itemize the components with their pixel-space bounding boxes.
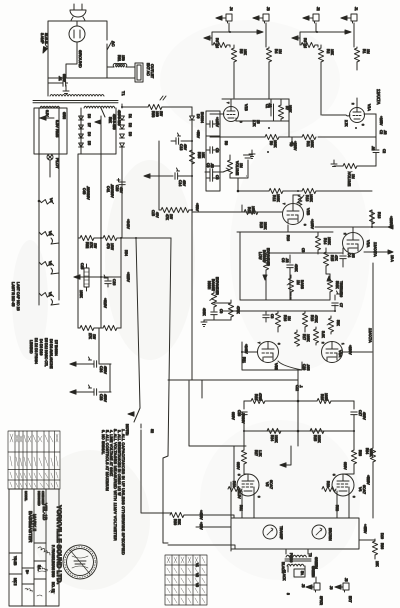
svg-text:R21: R21 bbox=[242, 357, 246, 363]
resistor R51 150 ohm coil bbox=[113, 63, 135, 67]
svg-text:HIGH: HIGH bbox=[207, 281, 211, 290]
pilot lamp bbox=[47, 154, 53, 166]
ext jack J6 bbox=[335, 583, 349, 592]
svg-text:12AX7A: 12AX7A bbox=[373, 242, 378, 257]
resistor R16 1M bbox=[275, 311, 280, 332]
svg-text:V3A: V3A bbox=[338, 350, 342, 358]
signature scribble bbox=[38, 547, 50, 555]
svg-text:R36: R36 bbox=[380, 543, 384, 549]
capacitor C22 .01 bbox=[61, 80, 69, 94]
resistor R18 470K bbox=[302, 311, 307, 332]
presence pot 50K bbox=[327, 316, 334, 334]
svg-text:6.3V RMS: 6.3V RMS bbox=[55, 120, 59, 138]
svg-text:B+: B+ bbox=[25, 570, 29, 574]
svg-text:3: 3 bbox=[361, 124, 365, 126]
svg-text:2: 2 bbox=[351, 103, 355, 105]
svg-text:J1: J1 bbox=[354, 7, 358, 11]
svg-text:C24: C24 bbox=[99, 366, 103, 372]
svg-text:MODEL: MODEL bbox=[24, 491, 28, 501]
cap C8 bbox=[263, 311, 269, 322]
extra scattered value labels bbox=[45, 110, 387, 595]
cap C7 + C10 bbox=[332, 291, 340, 311]
wires around V3 bbox=[242, 342, 372, 370]
svg-text:V2: V2 bbox=[48, 261, 52, 265]
svg-text:GROUND: GROUND bbox=[78, 50, 83, 68]
svg-text:V1: V1 bbox=[48, 292, 52, 296]
svg-text:V3: V3 bbox=[48, 231, 52, 235]
svg-text:C3: C3 bbox=[206, 163, 210, 167]
svg-text:10K: 10K bbox=[201, 152, 205, 159]
cap C2 on x376 bbox=[373, 137, 379, 166]
diode D6 bbox=[79, 125, 84, 129]
svg-text:S2: S2 bbox=[150, 429, 154, 433]
svg-text:C41: C41 bbox=[106, 186, 110, 192]
resistor R52 row1 bbox=[80, 235, 94, 240]
cap C13 bbox=[171, 133, 192, 144]
power box outline bbox=[48, 21, 107, 96]
svg-text:27K: 27K bbox=[88, 333, 92, 340]
svg-text:6.3V: 6.3V bbox=[45, 110, 49, 117]
tube V3A bbox=[322, 342, 343, 363]
svg-text:J5: J5 bbox=[301, 584, 305, 588]
resistor R3 1M bbox=[301, 42, 315, 47]
wire to ground cap bbox=[48, 50, 77, 83]
svg-text:SPKR: SPKR bbox=[319, 596, 323, 606]
svg-text:+165V: +165V bbox=[379, 116, 383, 126]
cap C14 + ground arrow bbox=[144, 168, 192, 179]
svg-text:J5: J5 bbox=[344, 578, 348, 582]
wire bus y238 to rails bbox=[121, 237, 171, 239]
heater bus wires bbox=[39, 108, 59, 305]
resistor R6 1M bbox=[213, 42, 227, 47]
svg-text:D5: D5 bbox=[87, 141, 91, 145]
volume pot ch2 bbox=[205, 155, 253, 178]
svg-text:400K: 400K bbox=[202, 308, 206, 317]
screen resistors bbox=[228, 486, 242, 491]
svg-text:R13: R13 bbox=[377, 212, 381, 218]
tube V1A bbox=[322, 98, 376, 123]
svg-text:C17: C17 bbox=[358, 410, 362, 416]
svg-text:.02/400V: .02/400V bbox=[110, 184, 114, 198]
svg-text:J4: J4 bbox=[229, 7, 233, 11]
resistor row2 a bbox=[80, 325, 94, 330]
title block signature scribbles bbox=[12, 559, 54, 596]
svg-text:D6: D6 bbox=[87, 132, 91, 136]
AC plug P1 bbox=[70, 4, 86, 21]
svg-text:RANGE: RANGE bbox=[211, 279, 215, 292]
svg-text:V1A: V1A bbox=[367, 104, 371, 111]
resistor R7 100K bbox=[278, 99, 283, 121]
svg-text:1W: 1W bbox=[92, 334, 96, 340]
cap C4 bbox=[340, 248, 346, 267]
svg-text:+525V: +525V bbox=[366, 475, 370, 485]
svg-text:2W: 2W bbox=[159, 111, 163, 117]
svg-text:C13: C13 bbox=[179, 144, 183, 150]
resistor R55 bbox=[189, 150, 194, 164]
cap C5 bbox=[287, 255, 293, 274]
svg-text:+280V: +280V bbox=[389, 216, 393, 227]
svg-text:OUTLET: OUTLET bbox=[150, 64, 154, 79]
rectifier loop box bbox=[81, 108, 116, 154]
svg-text:470K: 470K bbox=[258, 393, 262, 402]
svg-text:R52: R52 bbox=[85, 242, 89, 248]
svg-text:V3: V3 bbox=[195, 583, 199, 587]
resistor R25 bbox=[310, 428, 324, 433]
svg-text:R51: R51 bbox=[117, 55, 121, 61]
svg-text:J2: J2 bbox=[316, 7, 320, 11]
svg-text:C40: C40 bbox=[82, 188, 86, 194]
svg-text:+50V: +50V bbox=[195, 203, 199, 212]
resistor R34 right bbox=[370, 448, 375, 518]
resistor row2 b bbox=[103, 325, 117, 330]
svg-text:C25: C25 bbox=[80, 263, 84, 269]
diode D2 bbox=[120, 125, 125, 129]
bus y311 bbox=[222, 310, 335, 312]
svg-text:C12: C12 bbox=[295, 385, 299, 391]
svg-text:VOLUME: VOLUME bbox=[235, 161, 239, 176]
resistor R28 bbox=[317, 398, 331, 403]
cap C17 bbox=[351, 401, 357, 431]
resistor R39 on y515 bbox=[170, 512, 184, 517]
svg-text:+310V: +310V bbox=[103, 298, 107, 309]
heater V3 bbox=[39, 230, 59, 244]
svg-text:27K: 27K bbox=[89, 242, 93, 249]
resistor R47 bbox=[302, 188, 316, 193]
svg-text:V1: V1 bbox=[195, 563, 199, 567]
resistor R19 470K bbox=[214, 300, 234, 320]
resistor R11 100K on bus bbox=[302, 134, 316, 139]
cap C16 bbox=[241, 401, 247, 431]
svg-text:R28: R28 bbox=[358, 450, 362, 456]
svg-text:D3: D3 bbox=[128, 132, 132, 136]
svg-text:V2: V2 bbox=[195, 573, 199, 577]
tube V1B bbox=[210, 99, 239, 122]
svg-text:400-0-400: 400-0-400 bbox=[117, 110, 121, 126]
svg-text:R55: R55 bbox=[197, 152, 201, 158]
svg-text:150: 150 bbox=[121, 55, 125, 61]
output area extra labels bbox=[199, 522, 384, 590]
resistor R2 bbox=[318, 48, 323, 62]
tube chart scribbles bbox=[167, 557, 205, 603]
svg-text:2.7K: 2.7K bbox=[344, 120, 348, 127]
svg-text:1M: 1M bbox=[239, 163, 243, 168]
wire V2B plate up bbox=[299, 194, 301, 196]
svg-text:R39: R39 bbox=[173, 519, 177, 525]
diode D5 bbox=[79, 116, 84, 120]
wire sw to R51 bbox=[107, 44, 114, 67]
resistor R26 bbox=[251, 398, 265, 403]
svg-text:J6: J6 bbox=[329, 586, 333, 590]
svg-text:.1/400V: .1/400V bbox=[241, 412, 245, 424]
bus y431 bbox=[244, 430, 354, 432]
svg-text:C16: C16 bbox=[237, 410, 241, 416]
svg-text:AC: AC bbox=[111, 41, 116, 47]
svg-text:+50V: +50V bbox=[196, 130, 200, 139]
tube chart table bbox=[165, 555, 207, 605]
svg-text:.02: .02 bbox=[383, 130, 387, 135]
resistor R4 bbox=[266, 48, 271, 62]
wire D column down bbox=[121, 104, 123, 210]
svg-text:400-0-400: 400-0-400 bbox=[112, 114, 116, 130]
svg-text:V3B: V3B bbox=[274, 363, 278, 371]
tube V5 6CA7 bbox=[237, 431, 259, 518]
fuse F1 3AMP bbox=[41, 35, 48, 54]
svg-text:100K: 100K bbox=[324, 393, 328, 402]
diode D8 bbox=[79, 143, 84, 147]
svg-text:3 AMP: 3 AMP bbox=[40, 33, 44, 44]
svg-text:D7: D7 bbox=[87, 123, 91, 127]
resistor R1 bbox=[354, 48, 359, 62]
svg-text:10 A: 10 A bbox=[390, 255, 394, 263]
svg-text:40V: 40V bbox=[183, 144, 187, 151]
svg-text:NO. 1B: NO. 1B bbox=[51, 582, 55, 592]
svg-text:100K: 100K bbox=[79, 290, 83, 299]
rail x121 from C26 node bbox=[121, 185, 122, 238]
resistor R21 bbox=[313, 327, 318, 345]
jack J1 bbox=[341, 14, 357, 23]
svg-text:100: 100 bbox=[155, 111, 159, 117]
jack J3 bbox=[253, 14, 269, 23]
svg-text:+290V: +290V bbox=[348, 345, 352, 355]
caps C24 wire bbox=[70, 328, 111, 367]
revision table scribbles bbox=[10, 434, 58, 487]
fuse 5A box bbox=[294, 569, 305, 577]
svg-text:C2: C2 bbox=[382, 149, 386, 153]
resistor R14 bbox=[315, 236, 320, 250]
connector EXT AC OUTLET bbox=[133, 63, 143, 82]
diode D4 bbox=[120, 143, 125, 147]
cathode V2B down bbox=[287, 225, 289, 232]
tone stack wires bbox=[240, 232, 343, 300]
wire bus y545 to output box bbox=[168, 545, 235, 549]
svg-text:C3: C3 bbox=[215, 148, 219, 152]
HR expander pot 400K bbox=[210, 290, 217, 309]
svg-text:6. NO SIGNAL: 6. NO SIGNAL bbox=[101, 430, 105, 455]
svg-text:C2: C2 bbox=[379, 130, 383, 134]
mid caps wire y277 bbox=[74, 276, 121, 278]
svg-text:R53: R53 bbox=[151, 111, 155, 117]
plate wire V1B bbox=[222, 98, 289, 100]
+165V corner bbox=[375, 114, 377, 137]
resistor R57 47K bbox=[159, 141, 161, 210]
svg-text:450V: 450V bbox=[103, 394, 107, 403]
wire y527 into box bbox=[196, 526, 231, 528]
resistor R13 to +280 bbox=[315, 210, 372, 227]
svg-text:D6 D8 AVALANCHE: D6 D8 AVALANCHE bbox=[49, 339, 53, 369]
terminal board box bbox=[206, 111, 220, 191]
tube V2B bbox=[283, 195, 304, 225]
svg-text:R8: R8 bbox=[224, 141, 228, 145]
electrolytic cap C25 box bbox=[84, 264, 89, 291]
svg-text:R22: R22 bbox=[254, 394, 258, 400]
engineer stamp bbox=[63, 545, 97, 579]
svg-text:.1: .1 bbox=[299, 385, 303, 388]
+10A arrow right bbox=[364, 250, 393, 254]
svg-text:+15V: +15V bbox=[199, 522, 203, 530]
BASS pot bbox=[287, 275, 294, 296]
B+ wire from rectifier top bbox=[122, 106, 192, 108]
svg-text:C23: C23 bbox=[99, 394, 103, 400]
svg-text:R23: R23 bbox=[320, 394, 324, 400]
svg-text:EXPANDER: EXPANDER bbox=[215, 277, 219, 296]
rail x101 bbox=[100, 125, 102, 238]
standby switch SW2 bbox=[101, 108, 105, 120]
svg-text:+455V: +455V bbox=[363, 524, 367, 534]
svg-text:D5 D12 HASO CTL: D5 D12 HASO CTL bbox=[44, 338, 48, 367]
PI output box bbox=[168, 370, 298, 446]
resistor R9 100K on bus bbox=[265, 134, 279, 139]
svg-text:12AX7A: 12AX7A bbox=[368, 328, 373, 343]
ground sym bbox=[201, 320, 207, 327]
resistor R17 bbox=[294, 330, 299, 346]
main title block frame bbox=[9, 489, 59, 606]
cap C26 bbox=[117, 179, 125, 185]
power transformer T1 bbox=[33, 95, 118, 109]
diode D3 bbox=[120, 134, 125, 138]
svg-text:.02: .02 bbox=[210, 163, 214, 168]
svg-text:SLO B: SLO B bbox=[44, 33, 48, 44]
resistor R24 bbox=[267, 428, 281, 433]
wire lower to outlet bbox=[48, 67, 135, 78]
bias circle 2 bbox=[312, 525, 326, 539]
svg-text:40V: 40V bbox=[182, 180, 186, 187]
svg-text:PILOT: PILOT bbox=[55, 158, 59, 169]
+280V arrow bbox=[372, 225, 393, 229]
svg-text:10K: 10K bbox=[375, 561, 379, 568]
svg-text:56K: 56K bbox=[177, 519, 181, 526]
resistor R53 bbox=[148, 104, 162, 109]
AC receptacle circle bbox=[69, 21, 85, 50]
rails continue to row2 bbox=[78, 238, 121, 328]
svg-text:56K: 56K bbox=[108, 117, 112, 124]
resistor R15 47K bbox=[323, 252, 328, 266]
svg-text:T1: T1 bbox=[121, 91, 126, 96]
tube V3B bbox=[258, 342, 279, 363]
svg-text:D7 IN4004: D7 IN4004 bbox=[54, 340, 58, 356]
svg-text:1M: 1M bbox=[366, 49, 370, 54]
resistor R14 100K plate V2B bbox=[293, 195, 302, 205]
svg-text:R34: R34 bbox=[365, 448, 369, 454]
svg-text:100K: 100K bbox=[369, 449, 373, 458]
heater V1 bbox=[39, 291, 59, 305]
svg-text:400V: 400V bbox=[362, 412, 366, 421]
svg-text:450V: 450V bbox=[103, 366, 107, 375]
svg-text:12AX7A: 12AX7A bbox=[376, 89, 381, 105]
diode D1 bbox=[120, 116, 125, 120]
svg-text:GRN: GRN bbox=[62, 112, 66, 120]
svg-text:.02/400V: .02/400V bbox=[86, 186, 90, 200]
wire rail C x136 bbox=[136, 238, 170, 513]
tube pin digits bbox=[226, 102, 365, 498]
revision table bbox=[8, 431, 60, 489]
heater V4 bbox=[38, 198, 54, 206]
resistor R? on y212 bbox=[244, 209, 258, 214]
svg-text:D1: D1 bbox=[128, 114, 132, 118]
resistor R53b row1 bbox=[103, 235, 117, 240]
speaker jack J5 bbox=[306, 577, 320, 592]
svg-text:MK II: MK II bbox=[13, 578, 17, 586]
svg-text:D8: D8 bbox=[87, 114, 91, 118]
jack J2 bbox=[303, 14, 319, 23]
bus y191 second stage grid bbox=[238, 178, 372, 191]
bias resistor right bbox=[359, 539, 378, 559]
svg-text:8: 8 bbox=[286, 593, 290, 595]
tube V2A bbox=[343, 227, 364, 254]
jack J4 bbox=[216, 14, 232, 23]
svg-text:D2: D2 bbox=[128, 123, 132, 127]
svg-text:6CA7: 6CA7 bbox=[362, 485, 366, 494]
TREBLE pot bbox=[327, 274, 333, 296]
svg-text:R1: R1 bbox=[362, 49, 366, 53]
standby switch on rail C bbox=[134, 408, 141, 428]
output box loop bbox=[231, 446, 359, 551]
svg-text:J3: J3 bbox=[266, 7, 270, 11]
right rail x372 bbox=[372, 263, 374, 448]
ch2 wiring bbox=[212, 23, 266, 47]
svg-text:600V: 600V bbox=[231, 412, 235, 421]
caps C23 wire bbox=[70, 364, 111, 395]
wire rail D x171 bbox=[163, 238, 171, 543]
6.3V block bbox=[34, 108, 67, 154]
ch1 wiring bbox=[300, 23, 354, 47]
svg-text:EXT: EXT bbox=[348, 596, 352, 602]
cap C1 bbox=[271, 99, 274, 121]
resistor R5 bbox=[231, 48, 236, 62]
ground V1B cathode bbox=[249, 150, 255, 159]
diode D7 bbox=[79, 134, 84, 138]
svg-text:.02: .02 bbox=[371, 146, 375, 151]
svg-text:C6: C6 bbox=[215, 175, 219, 179]
tube V4 6CA7 bbox=[332, 431, 357, 518]
cap C26b bbox=[104, 275, 111, 287]
svg-text:D10: D10 bbox=[380, 533, 384, 539]
cap C9 bbox=[204, 309, 217, 320]
bias circle 1 bbox=[263, 525, 277, 539]
svg-text:V4: V4 bbox=[49, 198, 53, 202]
heater V2 bbox=[39, 260, 59, 274]
bus y137 bbox=[210, 136, 376, 138]
volume pot ch1 bbox=[331, 160, 376, 176]
svg-text:1W: 1W bbox=[93, 243, 97, 249]
svg-text:+240V: +240V bbox=[244, 344, 248, 354]
output transformer T2 bbox=[285, 549, 311, 572]
bus y205-212 left of V2B bbox=[192, 205, 282, 212]
grid bus V2A bbox=[237, 231, 333, 233]
switch SW1 AC bbox=[107, 41, 112, 50]
resistor R46 bbox=[269, 188, 283, 193]
wire y121 + x289 drop bbox=[236, 99, 289, 137]
rail x78 bbox=[78, 154, 81, 238]
wire plate V2B to R13 bbox=[297, 195, 304, 203]
center wire down bbox=[297, 371, 299, 431]
diode D9 IN4004 bbox=[190, 107, 195, 380]
svg-text:EXT AC: EXT AC bbox=[146, 63, 150, 76]
